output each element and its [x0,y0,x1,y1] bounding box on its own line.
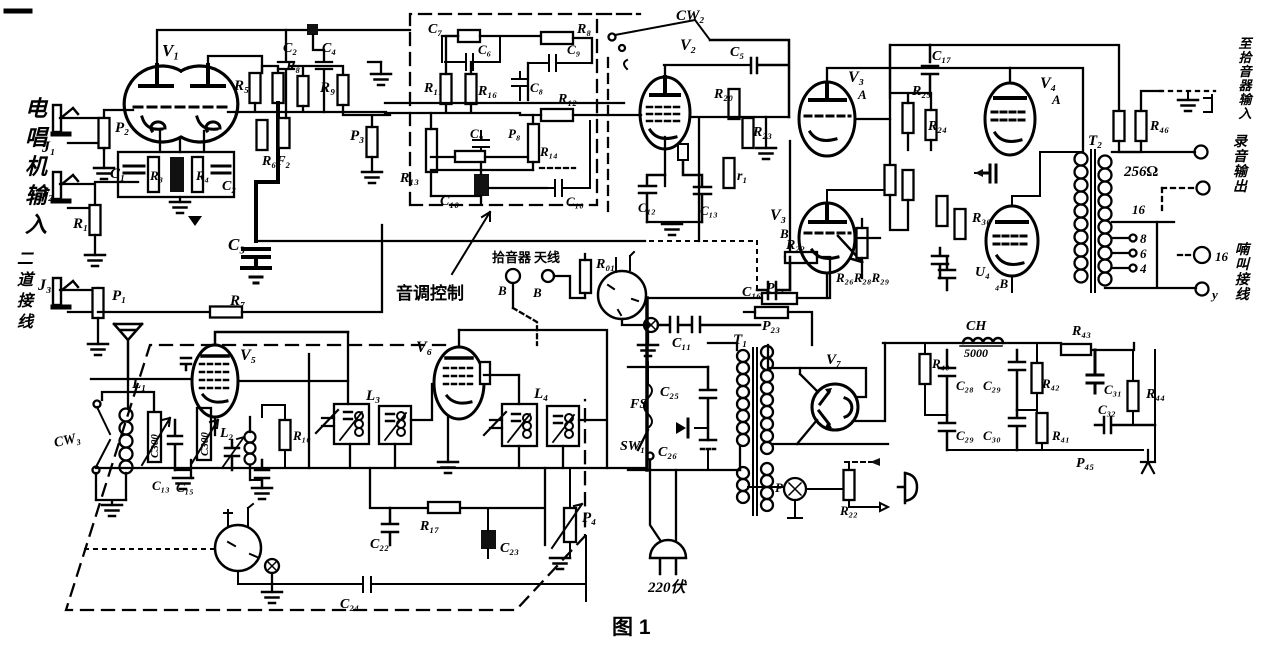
linkage dash-dot to tuning gang [85,548,215,550]
svg-text:C₃₁: C₃₁ [1104,382,1122,397]
svg-text:R₇: R₇ [229,293,245,309]
svg-text:A: A [1051,92,1061,107]
ground under V1 [170,202,190,213]
resistor R46 [1136,111,1147,141]
T1 secondary HV [761,346,773,454]
svg-text:C₈: C₈ [530,80,543,95]
svg-text:P₄: P₄ [582,510,596,526]
resistor P3 [367,127,378,157]
L3 leads [348,332,395,468]
svg-text:R₄₂: R₄₂ [1041,376,1060,391]
V1 cathode leads [160,131,204,202]
resistor R45 [1114,111,1125,141]
V3B plate [810,206,845,222]
wire R1 ground [94,235,96,255]
V1 grids (dashed) [134,106,230,109]
svg-text:入: 入 [1237,106,1251,121]
svg-text:电: 电 [25,96,49,121]
svg-text:入: 入 [25,212,47,237]
jack J1 [53,105,78,134]
scan artifact corner mark [6,9,30,14]
wire J1 to P2 [60,118,104,150]
trimmer cap [168,420,182,470]
svg-text:C₂₄: C₂₄ [340,597,359,612]
V4A grids [992,112,1028,120]
svg-text:V₂: V₂ [680,37,696,54]
wires R45 R46 [1119,91,1162,152]
ground under P2 [94,168,114,179]
svg-text:R₂₀: R₂₀ [713,87,733,102]
resistor P1 [93,288,104,318]
tube V1 envelope (two merged lobes) [124,66,238,142]
tube V3A [799,82,855,156]
resistor P2 [99,118,110,148]
capacitor C29 [1009,350,1025,410]
terminal 2 [1197,182,1210,195]
svg-text:音: 音 [1233,148,1249,165]
resistor R23 [743,118,754,148]
L4 coil b [554,416,562,423]
capacitor C29b [939,415,955,450]
wire to R7 [98,311,210,313]
V3A top lead [827,68,1010,84]
label J3 CN [17,251,36,331]
L4 coil a [512,414,520,421]
svg-text:r₁: r₁ [737,169,747,184]
T1 primary [737,350,749,446]
svg-text:16: 16 [1132,202,1146,217]
resistor R10 [280,420,291,450]
linkage dashes [540,167,575,169]
svg-text:6: 6 [1140,246,1147,261]
resistor R24 [926,110,937,140]
phone jack [898,473,917,503]
svg-text:至: 至 [1238,36,1253,51]
svg-text:器: 器 [1238,78,1253,93]
svg-text:R₂₅: R₂₅ [911,84,931,99]
svg-text:R₁₄: R₁₄ [539,144,558,159]
AVC vertical [308,354,310,468]
tap 4 [1130,265,1137,272]
ground under V2 [662,224,682,235]
tube V2 envelope [640,77,690,149]
terminal 4 [1196,283,1209,296]
L3 coil b [386,414,394,421]
svg-text:拾: 拾 [1238,50,1253,65]
V5 grid cap [181,358,191,370]
bus wires inside [385,36,597,113]
V2 plate [651,77,679,95]
svg-text:天线: 天线 [534,250,560,265]
svg-text:T₂: T₂ [1088,133,1102,149]
resistor R20 [729,89,740,119]
capacitor C8 [512,72,528,100]
wire tone box to V2 grid [597,102,624,104]
svg-text:B: B [497,283,507,298]
label right mid CN [1233,134,1250,195]
long bus [96,467,647,469]
shield dashed line [607,58,609,216]
arrow pot [838,236,862,262]
L3 trimmer [316,410,338,433]
svg-text:R₉: R₉ [319,80,335,96]
V4B leads [1012,152,1083,292]
svg-text:J₃: J₃ [37,277,52,294]
V5 plate [202,354,228,358]
T2 core [1091,150,1095,292]
T2 primary winding [1075,153,1088,283]
wire top rail y45 [890,45,1119,165]
capacitor C2 [212,166,230,173]
connector terminal [265,559,279,573]
wire P3 [343,105,390,172]
svg-text:C₂₉: C₂₉ [983,378,1001,393]
dashed tuner border [66,345,585,610]
resistor R40 [920,354,931,384]
long wire to V3 grid [256,240,645,242]
resistor R9 [338,75,349,105]
cathode network box [118,152,234,197]
svg-text:₄B: ₄B [995,276,1009,291]
svg-text:C₁₀: C₁₀ [566,194,584,209]
T1 pilot winding [737,467,749,503]
capacitor C19 [939,258,955,290]
dghash to top bracket [1160,90,1215,92]
V3B cathode [812,250,838,258]
heavy wire from R8 down [256,103,278,241]
svg-text:y: y [1210,287,1218,302]
svg-text:C₁₇: C₁₇ [932,49,951,64]
terminal circle small [644,318,658,332]
capacitor C28 [939,350,955,415]
V1 left cathode [142,117,165,131]
jack J2 [53,172,78,201]
svg-text:C₂₃: C₂₃ [500,541,519,556]
label right top CN [1237,36,1254,121]
capacitor C11 double [658,317,760,332]
wire mid rail [228,103,386,112]
svg-text:P₈: P₈ [508,126,520,141]
svg-text:CH: CH [966,319,987,334]
svg-text:B: B [779,226,789,241]
svg-text:输: 输 [1233,163,1250,180]
svg-text:C₃₀: C₃₀ [983,428,1001,443]
svg-text:R₀₁: R₀₁ [595,257,615,272]
secondary bottom wire [1105,222,1196,288]
svg-text:R₆F₂: R₆F₂ [261,154,291,169]
svg-text:8: 8 [1140,231,1147,246]
plug 220V [650,540,686,574]
svg-text:V₁: V₁ [162,41,179,60]
ground under C21 [252,488,272,499]
wire connector right [646,297,762,299]
resistor R8b [298,76,309,106]
svg-text:B: B [532,285,542,300]
C300b arrow [192,420,218,463]
ground under connector [271,573,273,592]
svg-text:叫: 叫 [1235,257,1251,273]
wire top connects [262,66,343,76]
resistor R16 [466,74,477,104]
tap 6 [1130,250,1137,257]
svg-text:道: 道 [17,271,36,289]
svg-text:拾音器: 拾音器 [492,250,532,265]
ground under R1 [85,255,105,266]
svg-text:L₁: L₁ [131,376,146,392]
resistor R15 [528,124,539,162]
wires V3 right [855,45,931,278]
resistor R1 [90,205,101,235]
svg-text:R₁₁: R₁₁ [423,81,443,96]
ground under P4 [550,558,570,569]
ground under P1 [88,344,108,355]
svg-text:音: 音 [1238,64,1253,79]
terminal 3 big [1194,247,1210,263]
wire to terminal 1 [1112,151,1195,153]
svg-text:C₂: C₂ [222,179,236,194]
wire grid J2 runs right [95,181,138,183]
wire J2 to R1 [60,184,95,208]
grid stopper ground [380,62,382,74]
svg-text:C₆: C₆ [478,42,492,57]
svg-text:R₃: R₃ [149,168,163,183]
wire B1 down [512,283,514,308]
tube V4A [985,83,1035,155]
svg-text:U₄: U₄ [975,265,990,280]
resistor R25 [903,103,914,133]
V3B grid [805,232,850,235]
wire J3 to P1 [60,288,98,312]
svg-text:唱: 唱 [25,125,50,150]
svg-text:R₁₂: R₁₂ [557,92,577,107]
svg-text:R₁: R₁ [72,216,88,232]
wire primary top [708,343,740,470]
L4 leads [519,375,563,468]
L3 coil a [344,412,352,419]
antenna [114,324,142,379]
connector pins [608,252,638,315]
terminal B1 [506,269,520,283]
V6 grids [444,368,474,384]
svg-text:CW₃: CW₃ [53,431,82,451]
svg-text:P₄₅: P₄₅ [1076,456,1094,471]
svg-text:喃: 喃 [1235,241,1252,258]
resistor R29 [903,170,914,200]
V2 cathode [650,130,676,138]
svg-text:C₁₅: C₁₅ [176,480,194,495]
resistor R6 [257,120,268,150]
svg-text:接: 接 [17,292,36,310]
oscillator connector [215,525,261,571]
T1 filament winding [761,463,773,511]
L4 trimmer [484,412,506,435]
svg-text:R₄₁: R₄₁ [1051,428,1070,443]
resistor R17 [428,502,460,513]
dashed tone control box [410,14,640,205]
svg-text:T₁: T₁ [733,332,747,348]
resistor R30 [955,209,966,239]
ground under C300 [175,460,191,478]
svg-text:V₆: V₆ [416,339,432,356]
wire V1 grid left [104,110,133,118]
svg-text:线: 线 [1235,286,1251,303]
tube V5 [192,345,238,417]
wire horizontals [628,367,740,470]
svg-text:P₁: P₁ [112,288,126,304]
svg-text:V₇: V₇ [826,352,841,368]
tube V4B [986,206,1038,276]
V4B plate [997,220,1027,224]
heavy vertical [645,298,649,470]
V3A grid [805,115,850,118]
wire P2 to ground [103,148,105,168]
resistor R13 [426,129,437,172]
svg-text:C₂₉: C₂₉ [956,428,974,443]
V2 cathode lead [664,137,666,186]
linkage dash-dot [650,241,757,293]
heater bottom wire [772,443,888,445]
svg-text:P₂₃: P₂₃ [762,319,780,334]
svg-text:16: 16 [1215,249,1229,264]
svg-text:音调控制: 音调控制 [396,283,464,303]
capacitor C15b [932,248,948,278]
capacitor C10a solid [474,174,489,196]
wires filter [925,343,1155,460]
connector pins [224,504,257,578]
svg-text:录: 录 [1233,134,1249,150]
V1 right cathode [197,117,220,131]
coupling cap C18 [982,165,996,182]
svg-text:V₃: V₃ [848,69,864,86]
V4B cathode [997,256,1023,264]
svg-text:C₁₆: C₁₆ [742,285,761,300]
wire to V2 top [664,65,749,77]
T1 core [753,348,757,515]
T2 secondary winding [1099,156,1112,286]
V6 top lead [458,330,460,347]
capacitor C21 [255,460,269,488]
svg-text:出: 出 [1233,178,1248,195]
V2 grid dashes [647,107,683,121]
svg-text:输: 输 [1238,92,1254,107]
svg-text:V₅: V₅ [240,347,256,364]
svg-text:L₄: L₄ [533,386,548,402]
capacitor C10b [547,121,590,196]
svg-text:256Ω: 256Ω [1123,164,1159,180]
variable cap C300a [148,412,161,462]
resistor R8a [273,73,284,103]
svg-text:C₂₂: C₂₂ [370,537,389,552]
svg-text:R₄₆: R₄₆ [1149,119,1169,134]
resistor R31 [937,196,948,226]
wire to transformer [1010,68,1083,152]
ground top [647,332,649,345]
polar cap arrow [695,427,708,429]
capacitor C23 [481,530,496,549]
svg-text:C₁₃: C₁₃ [152,478,170,493]
B+ rail [883,343,1134,350]
V4A plate [995,96,1025,100]
V7 right lead [853,343,885,421]
svg-text:R₈: R₈ [576,22,591,37]
V3A cathode resistor R22 [785,141,790,257]
svg-text:R₄: R₄ [195,168,209,183]
tube V6 [434,347,484,419]
V4B grids [994,236,1030,244]
pot Ro1 [580,260,591,293]
svg-text:C₂₆: C₂₆ [658,445,677,460]
tone arrow [452,212,490,274]
resistor bottom row [455,151,485,162]
svg-text:R₂₄: R₂₄ [927,119,947,134]
svg-text:220伏: 220伏 [647,579,688,596]
svg-text:R₂₃: R₂₃ [752,125,772,140]
ground under V6 [447,417,449,462]
svg-text:L₃: L₃ [365,388,380,404]
svg-text:R₄₃: R₄₃ [1071,324,1091,339]
resistor R5 [250,73,261,103]
svg-text:R₅: R₅ [233,78,249,94]
svg-text:P₂: P₂ [115,120,129,136]
resistor rh [724,158,735,188]
svg-text:C₇: C₇ [428,22,442,37]
bottom bus [431,170,547,196]
wire tone box to grid [597,114,641,116]
svg-text:4: 4 [1139,261,1147,276]
ground right of V2 [756,148,776,159]
svg-text:C₁₁: C₁₁ [672,336,691,351]
chassis arrow ground [1141,450,1155,473]
resistor R11 [441,74,452,104]
V3A plate [810,84,845,100]
resistor R41 [1037,413,1048,443]
resistor under arrow [857,228,868,258]
V3A cathode [810,132,836,140]
svg-text:接: 接 [1235,271,1251,288]
coupling R22b [885,165,896,195]
V6 cathode [447,396,471,403]
resistor R44 [1128,381,1139,411]
svg-text:V₃: V₃ [770,207,786,224]
V7 filament arrows [819,392,829,424]
resistor R4 [170,157,184,192]
resistor R3 [148,157,159,192]
V6 side cap [480,362,490,384]
V6 plate [446,356,472,360]
wire R7 right [242,225,382,312]
jack J3 [53,278,78,307]
svg-text:二: 二 [17,251,34,268]
wire y508 [370,468,545,545]
wire P1 ground [97,318,99,344]
svg-text:C₂₈: C₂₈ [956,378,974,393]
wire connector bottom [622,319,651,325]
V7 plate arc [845,398,852,417]
svg-text:5000: 5000 [964,346,988,360]
resistor R7 [210,307,242,318]
resistor F2 [279,118,290,148]
wire link down [690,117,789,241]
wire top rail [157,30,410,66]
svg-text:R₁₆: R₁₆ [477,84,497,99]
resistor R42 [1032,363,1043,393]
V5 top lead [215,332,348,345]
label input jacks CN [25,96,51,237]
svg-text:P₃: P₃ [350,128,364,144]
small resistor P9 [678,144,688,160]
ground top right [1178,100,1198,111]
V1 left plate [140,65,172,86]
